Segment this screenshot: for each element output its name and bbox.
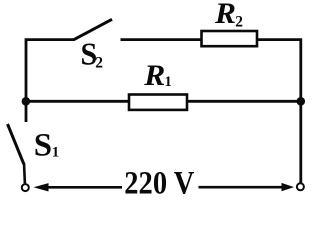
- svg-text:2: 2: [235, 13, 243, 30]
- svg-text:S: S: [34, 127, 52, 163]
- arrow right toward bottom-right terminal: [199, 183, 295, 191]
- terminal bottom-right: [297, 183, 304, 190]
- svg-text:1: 1: [52, 145, 60, 161]
- switch S2: [74, 19, 113, 40]
- wire middle branch through R1: [26, 100, 301, 103]
- label S1: [34, 127, 59, 163]
- switch S1: [8, 124, 24, 164]
- resistor R1: [129, 95, 187, 110]
- arrow left toward bottom-left terminal: [34, 183, 123, 191]
- terminal bottom-left: [22, 184, 29, 191]
- svg-text:220 V: 220 V: [124, 165, 194, 201]
- resistor R2: [202, 31, 258, 46]
- svg-text:R: R: [214, 0, 236, 30]
- wire S1 lower lead to terminal: [23, 163, 26, 183]
- node right junction: [297, 97, 306, 106]
- wire left rail and top rail to S2 left contact: [26, 40, 74, 122]
- svg-text:2: 2: [95, 54, 103, 71]
- label R2: [214, 0, 243, 30]
- svg-text:1: 1: [165, 74, 172, 90]
- node left junction: [22, 97, 31, 106]
- wire R2 to top-right corner and down right rail: [257, 40, 301, 183]
- svg-text:R: R: [143, 59, 165, 92]
- wire S2 right contact to R2: [121, 38, 204, 41]
- label R1: [143, 59, 171, 92]
- label S2: [81, 36, 104, 71]
